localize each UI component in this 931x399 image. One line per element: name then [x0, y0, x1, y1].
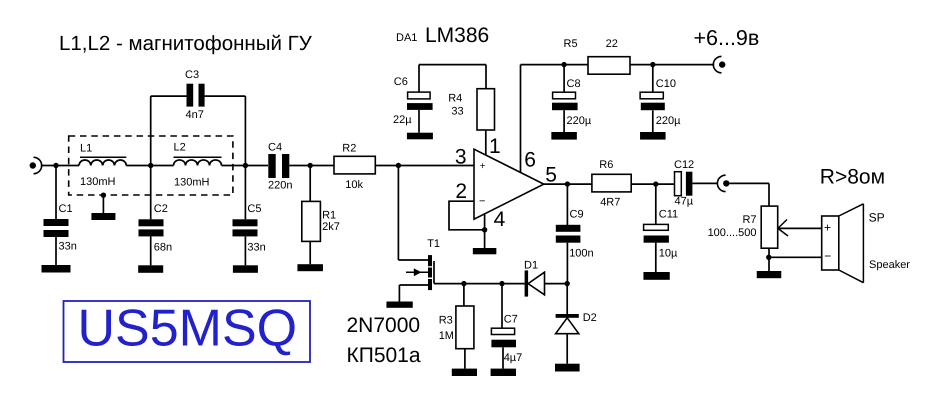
svg-text:4: 4 [494, 208, 506, 231]
svg-text:68n: 68n [154, 242, 172, 254]
svg-text:C6: C6 [394, 76, 408, 88]
svg-text:US5MSQ: US5MSQ [78, 300, 298, 358]
svg-text:C11: C11 [659, 209, 678, 221]
svg-text:1M: 1M [439, 330, 454, 342]
svg-text:33n: 33n [247, 242, 265, 254]
svg-text:C2: C2 [154, 203, 168, 215]
svg-text:D1: D1 [524, 260, 538, 272]
svg-text:R3: R3 [439, 314, 453, 326]
svg-text:33: 33 [451, 106, 463, 118]
svg-text:R>8ом: R>8ом [820, 165, 885, 188]
svg-text:130mH: 130mH [174, 176, 210, 188]
svg-text:L1: L1 [80, 142, 92, 154]
svg-text:33n: 33n [59, 241, 77, 253]
svg-text:C3: C3 [185, 69, 199, 81]
svg-text:10µ: 10µ [659, 248, 678, 260]
svg-text:SP: SP [869, 211, 885, 225]
svg-text:T1: T1 [427, 238, 440, 250]
svg-text:L2: L2 [174, 142, 186, 154]
svg-text:−: − [824, 249, 831, 263]
svg-text:130mH: 130mH [80, 176, 116, 188]
svg-text:C7: C7 [504, 314, 518, 326]
svg-text:6: 6 [524, 149, 536, 172]
svg-text:220µ: 220µ [567, 115, 592, 127]
svg-text:+: + [480, 161, 486, 172]
svg-text:C8: C8 [567, 78, 581, 90]
svg-text:3: 3 [455, 146, 467, 169]
svg-text:220µ: 220µ [656, 115, 681, 127]
svg-text:100....500: 100....500 [708, 227, 757, 239]
svg-text:DA1: DA1 [396, 32, 417, 44]
svg-text:22µ: 22µ [393, 114, 412, 126]
svg-text:R4: R4 [448, 92, 462, 104]
svg-text:+6...9в: +6...9в [694, 26, 760, 50]
svg-text:2N7000: 2N7000 [347, 314, 421, 337]
svg-text:4R7: 4R7 [600, 197, 620, 209]
svg-text:C10: C10 [656, 78, 676, 90]
svg-text:L1,L2 - магнитофонный ГУ: L1,L2 - магнитофонный ГУ [59, 32, 313, 55]
svg-text:C4: C4 [268, 142, 282, 154]
svg-text:Speaker: Speaker [869, 259, 910, 271]
svg-text:4µ7: 4µ7 [504, 352, 523, 364]
svg-text:1: 1 [489, 135, 501, 158]
svg-text:10k: 10k [345, 179, 363, 191]
svg-text:R2: R2 [342, 142, 356, 154]
svg-text:R1: R1 [322, 210, 336, 222]
svg-text:100n: 100n [569, 248, 593, 260]
svg-text:C1: C1 [59, 203, 73, 215]
svg-text:47µ: 47µ [675, 195, 694, 207]
svg-text:220n: 220n [268, 180, 292, 192]
svg-text:C9: C9 [570, 209, 584, 221]
svg-text:C5: C5 [247, 203, 261, 215]
svg-text:LM386: LM386 [425, 24, 489, 47]
svg-text:2: 2 [455, 180, 467, 203]
svg-text:КП501а: КП501а [347, 344, 421, 367]
svg-text:D2: D2 [583, 312, 597, 324]
svg-text:22: 22 [606, 38, 618, 50]
svg-text:C12: C12 [674, 159, 694, 171]
svg-text:−: − [479, 196, 485, 208]
svg-text:4n7: 4n7 [186, 109, 204, 121]
svg-text:+: + [824, 221, 831, 235]
svg-text:R6: R6 [599, 159, 613, 171]
svg-text:2k7: 2k7 [322, 221, 340, 233]
svg-text:R5: R5 [564, 38, 578, 50]
svg-text:R7: R7 [742, 214, 756, 226]
